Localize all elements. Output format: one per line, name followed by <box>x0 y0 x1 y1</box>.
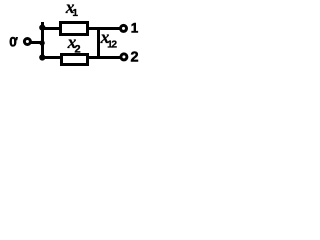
svg-text:0: 0 <box>9 35 17 50</box>
svg-text:2: 2 <box>75 43 81 55</box>
svg-text:1: 1 <box>72 8 78 19</box>
svg-text:2: 2 <box>131 49 139 65</box>
svg-text:2: 2 <box>111 40 117 51</box>
svg-text:1: 1 <box>131 20 139 35</box>
